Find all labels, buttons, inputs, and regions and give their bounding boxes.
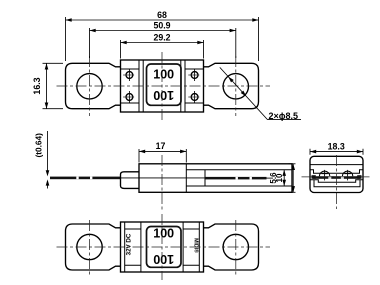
bottom view: left column lower line [125,264,141,266]
dimension 17 [139,141,186,163]
dimension leader 2x08.5 [220,67,301,121]
side view: main body outline [139,164,292,193]
top view: left tab outline [66,63,121,108]
svg-text:17: 17 [156,141,166,151]
top view: left mounting hole [77,74,102,99]
end view: plate line with end jogs [310,170,363,173]
bottom view: inner vertical left B [140,222,142,272]
bottom view: inner vertical left A [124,222,126,272]
side view: parting line [121,177,206,179]
dimension 18.3 [310,141,363,155]
bottom view: right column upper line [183,228,199,230]
top view: inner vertical line left B [142,60,144,112]
bottom view: left mounting hole [77,234,102,259]
top view: right hole centerline [235,56,237,116]
top view: inner vertical line right A [180,60,182,112]
end view: vertical centerline [336,155,338,209]
end view: horizontal centerline [302,176,372,178]
svg-text:18.3: 18.3 [328,141,345,151]
top view: body outline [121,60,204,112]
svg-text:100: 100 [153,88,174,102]
dimension t0.64 leader [34,131,50,189]
top view: left column upper ledge line [121,68,140,70]
dimension 29.2 [121,33,204,59]
top view: screw bottom-right [188,91,201,103]
svg-text:(t0.64): (t0.64) [34,133,44,158]
dimension 50.9 [90,21,236,59]
end view: top inner line [310,164,363,166]
top view: right mounting hole [223,74,248,99]
bottom view: left column upper line [125,228,141,230]
dimension 16.3 [32,63,63,108]
bottom view: left tab outline [66,224,121,270]
bottom view: label plate [147,227,182,268]
top view: screw bottom-left [123,91,136,103]
bottom view: left hole centerline [89,220,91,275]
svg-text:16.3: 16.3 [32,77,42,94]
side view: centerline stub right [267,177,274,179]
top view: label plate [147,64,182,105]
end view: left screw dome [319,170,329,181]
svg-text:68: 68 [157,10,167,20]
top view: right column upper ledge line [185,68,204,70]
svg-text:2×ϕ8.5: 2×ϕ8.5 [269,111,299,121]
dimension 68 [66,10,259,61]
bottom view: right hole centerline [235,220,237,275]
side view: left cap of body [121,172,140,189]
end view: lower step profile [310,180,363,183]
end view: terminal bar [313,176,360,179]
top view: screw top-right [188,69,201,81]
end view: right screw dome [342,170,352,181]
bottom view: vertical centerline body [161,214,163,280]
bottom view: right column lower line [183,264,199,266]
top view: right tab outline [204,63,259,108]
end view: outer body [310,156,363,192]
side view: vertical centerline [161,155,163,210]
top view: screw top-left [123,69,136,81]
side view: terminal bar inside body [205,177,267,180]
side view: inner vertical at bar start [204,170,206,186]
bottom view: body outline [121,222,204,272]
top view: left hole centerline [89,56,91,116]
top view: horizontal centerline [57,85,271,87]
end view: right terminal block [357,175,361,179]
top view: right column lower ledge line [185,102,204,104]
svg-text:100: 100 [153,68,174,82]
bottom view: inner vertical right A [182,222,184,272]
bottom view: horizontal centerline [57,246,271,248]
side view: terminal strip (thin metal, edge-on) [50,177,121,180]
side view: inner upper line [186,169,292,171]
top view: vertical centerline body [161,52,163,120]
bottom view: right tab outline [204,224,259,270]
dimension 10 [275,164,296,193]
bottom view: right mounting hole [223,234,248,259]
top view: inner vertical line right B [184,60,186,112]
svg-text:29.2: 29.2 [153,33,170,43]
dimension 5.6 [269,170,286,186]
side view: inner lower line [186,185,292,187]
svg-text:10: 10 [275,173,284,182]
side view: inner vertical at central block right [185,164,187,193]
svg-text:32V DC: 32V DC [126,233,133,255]
svg-text:100: 100 [153,252,174,266]
end view: left terminal block [312,175,316,179]
end view: lower groove line [314,180,360,187]
svg-text:MIDI®: MIDI® [193,238,200,253]
bottom view: inner vertical right B [198,222,200,272]
svg-text:50.9: 50.9 [153,21,170,31]
top view: left column lower ledge line [121,102,140,104]
svg-text:100: 100 [153,227,174,241]
top view: inner vertical line left A [138,60,140,112]
